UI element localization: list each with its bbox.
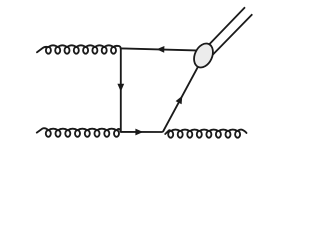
wire: vertical quark line between left vertices bbox=[120, 48, 122, 131]
double line out of blob: line 1 bbox=[204, 7, 245, 50]
wire: top antiquark line to blob bbox=[121, 48, 201, 50]
wire: diagonal quark line from bend to blob bbox=[163, 64, 200, 132]
arrow on bottom quark line (right) bbox=[135, 129, 143, 136]
arrow on top antiquark line (left) bbox=[157, 46, 165, 53]
blob: hadronization vertex ellipse bbox=[190, 40, 216, 70]
wire: bottom quark line from vertex to bend bbox=[121, 131, 163, 133]
gluon g1 (top-left incoming gluon) bbox=[37, 45, 121, 53]
double line out of blob: line 2 bbox=[211, 14, 253, 57]
gluon g2 (bottom-left incoming gluon) bbox=[37, 128, 121, 137]
arrow on vertical quark line (down) bbox=[117, 84, 124, 92]
arrow on diagonal quark line (up-right) bbox=[176, 96, 183, 105]
gluon g3 (bottom-right radiated gluon) bbox=[165, 130, 246, 138]
